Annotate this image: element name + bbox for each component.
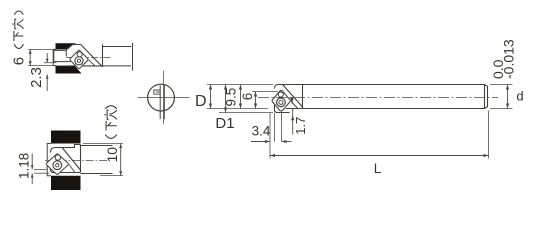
insert edge to pocket (top-left) <box>89 60 96 67</box>
svg-text:6: 6 <box>11 57 28 65</box>
extension line shank bottom (left) <box>207 108 268 110</box>
clamp screw of main insert <box>277 98 286 107</box>
insert edge line to pocket <box>291 102 298 109</box>
svg-text:1.18: 1.18 <box>17 153 32 179</box>
head block lower outline <box>275 105 290 113</box>
dimension d line <box>507 85 509 109</box>
dim 6 (pilot hole) line <box>29 49 31 65</box>
dim 10 (pilot hole) extension lines <box>83 143 123 145</box>
shank break line (top-left) <box>132 43 134 71</box>
shank body outline: top edge <box>275 85 485 89</box>
tool nose section (top-left) <box>54 50 67 61</box>
svg-text:D: D <box>195 93 207 110</box>
end view: vertical centerline <box>163 71 165 125</box>
paren ) of 6 label <box>14 11 23 15</box>
tool shank (top-left) <box>103 46 132 48</box>
centerline of main bar <box>258 97 498 99</box>
dim 2.3 line upper <box>46 53 48 63</box>
dimension L <box>270 155 489 157</box>
workpiece wall (upper, 6mm hole) <box>56 43 77 49</box>
svg-text:d: d <box>516 89 523 104</box>
extension line head bottom / insert tip (left) <box>219 112 273 114</box>
dimension 3.4 <box>251 141 270 143</box>
screw circle (bottom-left) <box>53 161 62 170</box>
insert (diamond) of main head <box>272 91 290 112</box>
dim 1.18 line upper <box>31 154 33 170</box>
end view: insert seen edge-on <box>159 85 161 119</box>
extension line from head face <box>274 113 276 142</box>
dim 1.18 line lower <box>31 173 33 184</box>
svg-text:-0.013: -0.013 <box>501 39 517 79</box>
tool head outline (bottom-left) <box>51 145 81 153</box>
dimension 1.7 <box>292 109 294 135</box>
insert diamond (top-left) <box>70 50 88 68</box>
svg-text:3.4: 3.4 <box>252 124 271 139</box>
screw circle (top-left) <box>75 57 83 65</box>
extension line from insert bottom vertex (3.4 right) <box>281 113 283 142</box>
tool centerline (top-left) <box>66 57 111 59</box>
end view: clamp detail <box>154 90 160 94</box>
paren ) of 10 label <box>105 106 117 109</box>
pilot hole bottom face (10mm) <box>47 144 51 176</box>
extension line bar end (for L) <box>488 111 490 159</box>
small circle (bottom-left insert corner) <box>55 155 60 160</box>
pocket corner wedge (dark) <box>290 97 293 104</box>
head end vertical <box>302 85 304 109</box>
extension line bar top (left) <box>207 84 273 86</box>
kanji shita of 6 label <box>12 19 23 41</box>
dimension D1 line <box>225 85 227 113</box>
kanji of 10 label <box>104 110 116 131</box>
svg-text:6: 6 <box>240 93 255 101</box>
dim 2.3 extension line <box>44 62 57 64</box>
svg-text:2.3: 2.3 <box>28 67 45 88</box>
dim 10 (pilot hole) line <box>120 144 122 176</box>
svg-text:L: L <box>374 161 382 176</box>
insert diamond (bottom-left) <box>46 154 68 174</box>
extension line insert top vertex <box>252 91 278 93</box>
small circle (top-left insert corner) <box>77 52 82 57</box>
dimension 9.5 line <box>240 85 242 109</box>
tool centerline (bottom-left) <box>45 160 109 162</box>
dimension 6 line <box>255 92 257 109</box>
paren ( of 10 label <box>105 135 117 139</box>
small screw-head circle at insert top corner <box>278 92 283 97</box>
extension lines at bar end for d <box>490 84 513 86</box>
tool head outline (top-left) <box>66 45 81 50</box>
label text 10 (pilot hole kanji) <box>104 147 120 163</box>
head front face (top-left) <box>65 50 67 57</box>
shank end chamfer <box>484 85 486 109</box>
workpiece wall (lower, 10mm hole) <box>51 176 81 190</box>
end view: shank circle <box>148 84 175 111</box>
tool shank (bottom-left) <box>81 145 113 147</box>
pilot hole bottom face <box>53 49 56 65</box>
end view: horizontal centerline <box>138 97 190 99</box>
svg-text:9.5: 9.5 <box>224 88 239 107</box>
shank bottom edge <box>286 108 485 110</box>
insert edge to pocket (bottom-left) <box>69 164 75 172</box>
dim 6 (pilot hole) extension lines <box>28 48 54 50</box>
extension line from insert front tip (for L / 3.4) <box>269 113 271 159</box>
svg-text:1.7: 1.7 <box>293 117 308 135</box>
dimension D line <box>210 85 212 109</box>
insert pocket diagonal <box>283 85 303 109</box>
workpiece wall (lower, 6mm hole) <box>56 66 82 74</box>
label text 6 (pilot hole kanji) <box>11 57 28 65</box>
svg-text:10: 10 <box>104 147 120 163</box>
dim 1.18 extension lines <box>34 169 47 171</box>
dim 2.3 line lower <box>46 74 48 91</box>
workpiece wall (upper, 10mm hole) <box>51 131 81 144</box>
paren ( of 6 label <box>14 44 23 48</box>
svg-text:D1: D1 <box>215 115 234 132</box>
